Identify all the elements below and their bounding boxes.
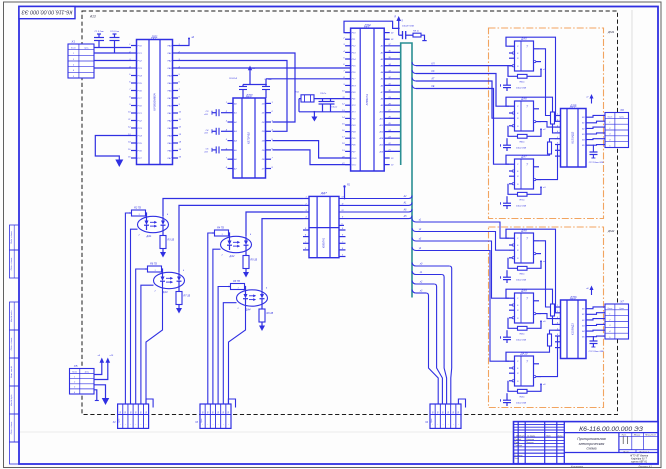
- connector X7: [605, 300, 629, 340]
- wire: [416, 74, 509, 107]
- svg-text:10мк×16В: 10мк×16В: [516, 205, 527, 208]
- trigger DA8: [501, 229, 547, 284]
- connector X1: [68, 40, 94, 79]
- svg-text:1: 1: [74, 377, 75, 379]
- wire: [416, 89, 509, 165]
- IC DD3: [225, 94, 274, 179]
- capacitor C6: [242, 85, 244, 87]
- wire: [416, 81, 509, 118]
- wire: [384, 32, 390, 34]
- svg-text:1: 1: [221, 234, 222, 236]
- connector X5: [70, 364, 95, 394]
- module DM1 boundary (orange dash-dot): [489, 28, 604, 219]
- wire: [384, 84, 401, 86]
- wire: [384, 71, 401, 73]
- wire: [586, 121, 605, 123]
- svg-text:С6 В1-В: С6 В1-В: [229, 78, 238, 80]
- svg-text:ХТ1: ХТ1: [351, 112, 357, 114]
- wire: [586, 138, 605, 141]
- svg-text:Конт: Конт: [608, 116, 613, 118]
- module DM2 boundary (orange dash-dot): [489, 227, 604, 408]
- wire: [95, 136, 131, 160]
- wire: [163, 199, 303, 217]
- capacitor C7: [265, 85, 267, 87]
- wire: [416, 251, 509, 362]
- node a0: [178, 39, 189, 46]
- wire: [262, 219, 303, 291]
- wire: [384, 117, 401, 119]
- bus tap: [412, 281, 416, 285]
- svg-text:Подп. и дата: Подп. и дата: [10, 337, 13, 350]
- svg-text:Масштаб: Масштаб: [645, 434, 656, 436]
- svg-text:Формат А3: Формат А3: [638, 465, 652, 468]
- svg-text:Лист: Лист: [519, 435, 525, 437]
- svg-text:4: 4: [73, 69, 74, 72]
- svg-text:2: 2: [73, 382, 75, 384]
- resistor R11: [551, 304, 555, 316]
- svg-text:КС: КС: [432, 71, 435, 73]
- node Ya1: [344, 187, 346, 199]
- wire: [208, 233, 213, 404]
- ground: [102, 398, 110, 405]
- wire (DD7 to bus): [339, 198, 409, 200]
- page fold line horizontal: [20, 431, 630, 433]
- svg-text:10мк×16В: 10мк×16В: [516, 339, 527, 342]
- svg-text:Подп. и дата: Подп. и дата: [10, 230, 13, 243]
- svg-text:Подп. и дата: Подп. и дата: [10, 421, 13, 434]
- svg-text:К6-116.00.00.000 ЭЗ: К6-116.00.00.000 ЭЗ: [579, 426, 644, 433]
- svg-text:R5 1В: R5 1В: [251, 259, 258, 262]
- svg-text:1: 1: [237, 288, 238, 290]
- wire: [586, 335, 605, 338]
- svg-text:2: 2: [608, 128, 610, 130]
- wire: [586, 329, 605, 332]
- svg-text:ДД3: ДД3: [245, 94, 252, 98]
- svg-text:А1: А1: [380, 51, 384, 54]
- svg-text:R3 1В: R3 1В: [168, 239, 175, 242]
- svg-text:ДМ1: ДМ1: [607, 30, 615, 34]
- page fold line vertical: [631, 10, 633, 460]
- pin stub: [339, 229, 346, 231]
- wire: [273, 150, 351, 165]
- pin stub: [339, 256, 346, 258]
- svg-text:Н.контр.: Н.контр.: [515, 455, 524, 457]
- svg-text:R4 ТВ: R4 ТВ: [217, 227, 224, 230]
- wire: [384, 58, 401, 60]
- wire: [94, 385, 106, 398]
- svg-text:RST: RST: [352, 85, 357, 87]
- svg-text:Цепь: Цепь: [620, 308, 624, 310]
- svg-text:Цепь: Цепь: [620, 116, 624, 118]
- bus tap: [412, 263, 416, 267]
- wire: [586, 307, 605, 309]
- wire: [541, 314, 555, 319]
- svg-text:Цепь: Цепь: [431, 418, 433, 422]
- wire: [416, 292, 426, 294]
- svg-text:1: 1: [609, 313, 610, 315]
- wire: [384, 91, 401, 93]
- node a8: [591, 290, 593, 296]
- svg-text:ZQ1: ZQ1: [294, 92, 300, 94]
- svg-text:С9-Ох: С9-Ох: [331, 107, 338, 109]
- wire: [94, 47, 131, 49]
- wire: [178, 61, 287, 132]
- wire: [384, 157, 390, 159]
- capacitor C11: [592, 145, 594, 153]
- svg-text:ДД9: ДД9: [569, 296, 576, 300]
- crystal ZQ1: [301, 95, 314, 102]
- wire: [586, 319, 605, 320]
- svg-text:К155ИД3: К155ИД3: [571, 131, 575, 143]
- pin stub: [339, 249, 346, 251]
- wire: [384, 131, 401, 133]
- svg-text:1: 1: [609, 122, 610, 124]
- svg-text:4: 4: [609, 330, 610, 333]
- wire: [541, 145, 558, 180]
- svg-text:3: 3: [609, 134, 610, 136]
- svg-text:С11 10мк×16В: С11 10мк×16В: [589, 161, 604, 164]
- capacitor С5: [221, 149, 228, 151]
- wire: [586, 115, 605, 117]
- wire: [94, 60, 131, 62]
- wire: [178, 53, 295, 122]
- svg-text:Х3: Х3: [194, 421, 199, 424]
- left margin box: [10, 442, 20, 464]
- node a7: [591, 98, 593, 104]
- wire: [384, 164, 390, 166]
- wire: [542, 97, 556, 133]
- svg-text:4: 4: [74, 391, 75, 394]
- wire (opto to DD7): [303, 204, 309, 206]
- svg-text:10мк×16В: 10мк×16В: [516, 147, 527, 150]
- svg-text:ДД5: ДД5: [569, 104, 576, 108]
- svg-text:10мк×16В: 10мк×16В: [516, 402, 527, 405]
- optocoupler DA3: [145, 263, 191, 314]
- wire (DD7 to bus): [339, 211, 409, 213]
- svg-text:1: 1: [73, 53, 74, 55]
- trigger DA9: [501, 289, 547, 344]
- bus tap: [412, 70, 416, 74]
- svg-text:Сидоров: Сидоров: [526, 438, 534, 441]
- wire: [384, 124, 401, 126]
- svg-text:ДД4: ДД4: [363, 24, 370, 28]
- svg-text:АТ89С51: АТ89С51: [365, 93, 369, 106]
- svg-text:группа АВТ-91: группа АВТ-91: [631, 461, 648, 464]
- wire: [94, 52, 131, 54]
- wire: [218, 287, 228, 405]
- bus (address): [401, 43, 412, 298]
- svg-text:Я: Я: [393, 17, 396, 19]
- svg-text:3: 3: [74, 387, 75, 389]
- capacitor С4: [221, 130, 228, 132]
- svg-text:2: 2: [608, 319, 610, 321]
- left margin box: [10, 225, 20, 250]
- wire: [384, 45, 401, 47]
- svg-text:х1В: х1В: [203, 114, 208, 116]
- capacitor C9: [330, 99, 332, 102]
- bus tap: [412, 271, 416, 275]
- wire: [586, 313, 605, 315]
- wire (DD7 to bus): [339, 204, 409, 206]
- svg-text:Масса: Масса: [634, 434, 641, 436]
- corner stamp box: [19, 7, 75, 19]
- wire: [146, 286, 163, 404]
- connector X6: [605, 108, 629, 148]
- wire: [421, 35, 425, 40]
- svg-text:10мк×16В: 10мк×16В: [516, 279, 527, 282]
- wire: [542, 37, 556, 121]
- wire: [178, 67, 351, 69]
- svg-text:В1: В1: [582, 314, 584, 316]
- svg-text:Копировал: Копировал: [571, 465, 584, 468]
- wire: [298, 99, 300, 112]
- wire: [542, 229, 556, 313]
- svg-text:КЕ: КЕ: [432, 86, 435, 88]
- svg-text:ДМ2: ДМ2: [607, 229, 615, 233]
- wire: [384, 137, 401, 139]
- svg-text:10мкФ×16В: 10мкФ×16В: [402, 25, 414, 28]
- ground: [115, 160, 123, 168]
- svg-text:ХТ2: ХТ2: [351, 105, 357, 107]
- resistor R12: [548, 334, 552, 346]
- svg-text:1: 1: [557, 114, 558, 116]
- svg-text:А13: А13: [89, 15, 96, 19]
- svg-text:Х2: Х2: [112, 421, 117, 424]
- svg-text:С2 0,1мк: С2 0,1мк: [110, 31, 120, 33]
- wire: [94, 390, 97, 401]
- IC DD5: [555, 104, 586, 167]
- wire: [541, 122, 555, 128]
- wire: [416, 265, 449, 267]
- svg-text:R8 1к: R8 1к: [413, 31, 420, 33]
- wire: [265, 79, 267, 85]
- left margin box: [10, 386, 20, 414]
- wire: [299, 111, 351, 113]
- optocoupler DA1: [129, 207, 175, 258]
- svg-text:3: 3: [609, 325, 610, 327]
- svg-text:Лист: Лист: [622, 451, 629, 453]
- svg-text:Цепь: Цепь: [84, 48, 88, 50]
- trigger DA6: [501, 97, 547, 152]
- capacitor С3: [221, 112, 228, 114]
- svg-text:Листов 1: Листов 1: [638, 451, 650, 453]
- wire: [94, 363, 102, 375]
- wire: [416, 65, 515, 67]
- svg-text:1: 1: [557, 305, 558, 307]
- wire: [384, 150, 401, 152]
- svg-text:5: 5: [73, 76, 74, 78]
- svg-text:Разраб.: Разраб.: [515, 439, 523, 441]
- wire: [416, 274, 442, 276]
- svg-text:R8 ТВ: R8 ТВ: [233, 280, 240, 283]
- left margin box: [10, 302, 20, 330]
- svg-text:ДА2: ДА2: [229, 254, 236, 258]
- wire (opto to DD7): [303, 198, 309, 200]
- wire: [539, 241, 555, 307]
- pin stub: [339, 236, 346, 238]
- svg-text:R9 1В: R9 1В: [267, 312, 274, 315]
- wire: [136, 269, 146, 404]
- wire: [223, 303, 236, 404]
- svg-text:С8-Ох: С8-Ох: [320, 93, 327, 95]
- svg-text:R6 ТВ: R6 ТВ: [150, 263, 157, 266]
- node a9 (+5V): [100, 358, 105, 363]
- trigger DA10: [501, 352, 547, 407]
- connector X2: [112, 399, 153, 428]
- svg-text:Конт: Конт: [71, 48, 76, 50]
- svg-text:Утв.: Утв.: [515, 458, 520, 460]
- svg-text:R2 ТВ: R2 ТВ: [134, 207, 141, 210]
- pin stub: [339, 242, 346, 244]
- capacitor С1: [98, 41, 100, 48]
- svg-text:Х4: Х4: [424, 421, 429, 424]
- junction: [344, 198, 346, 200]
- wire: [541, 336, 558, 377]
- resistor R8: [413, 33, 421, 37]
- svg-text:Инв.№ дубл.: Инв.№ дубл.: [10, 394, 13, 406]
- svg-text:5: 5: [609, 145, 610, 147]
- wire: [229, 304, 246, 405]
- svg-text:Конт: Конт: [608, 308, 613, 310]
- wire: [384, 51, 401, 53]
- capacitor C8: [322, 99, 324, 102]
- svg-text:Лит.: Лит.: [620, 434, 627, 436]
- svg-text:Х6: Х6: [619, 108, 624, 112]
- svg-text:Подп. и дата: Подп. и дата: [10, 257, 13, 270]
- svg-text:2: 2: [72, 59, 74, 61]
- left margin box: [10, 250, 20, 278]
- svg-text:Пров.: Пров.: [515, 442, 521, 444]
- svg-text:ДД1: ДД1: [150, 35, 157, 39]
- wire: [384, 111, 401, 113]
- wire: [266, 78, 351, 80]
- svg-text:Х7: Х7: [619, 300, 624, 304]
- wire: [179, 205, 303, 272]
- svg-text:Х5: Х5: [73, 364, 78, 368]
- svg-text:10мк×16В: 10мк×16В: [516, 87, 527, 90]
- wire: [273, 141, 351, 158]
- junction: [265, 84, 267, 86]
- wire: [416, 222, 509, 238]
- bus tap: [412, 62, 416, 66]
- svg-text:х1В: х1В: [203, 133, 208, 135]
- svg-text:К555ЛН1: К555ЛН1: [323, 237, 326, 248]
- svg-text:Цепь: Цепь: [85, 372, 89, 374]
- wire: [542, 139, 556, 156]
- svg-text:С12 10мк×16В: С12 10мк×16В: [589, 350, 604, 353]
- svg-text:R7 1В: R7 1В: [184, 295, 191, 298]
- wire: [384, 78, 401, 80]
- pin stub: [303, 229, 309, 231]
- bus tap: [412, 238, 416, 242]
- svg-text:Подп.: Подп.: [546, 434, 552, 437]
- wire: [406, 34, 413, 36]
- bus tap: [412, 228, 416, 232]
- svg-text:GND: GND: [352, 158, 357, 160]
- svg-text:В1: В1: [582, 123, 584, 125]
- wire: [542, 330, 556, 352]
- svg-text:К155ИД3: К155ИД3: [571, 323, 575, 335]
- wire: [384, 144, 401, 146]
- node +5V: [396, 16, 401, 21]
- trigger DA7: [501, 155, 547, 210]
- IC DD1: [128, 35, 182, 165]
- svg-text:Х1: Х1: [70, 40, 75, 44]
- wire: [299, 98, 351, 100]
- optocoupler DA4: [228, 280, 274, 331]
- svg-text:К573РФ2: К573РФ2: [247, 132, 251, 144]
- wire: [586, 133, 605, 134]
- left margin box: [10, 414, 20, 442]
- device boundary (dashed): [82, 11, 618, 415]
- svg-text:31: 31: [388, 84, 390, 86]
- svg-text:ДА1: ДА1: [146, 234, 153, 238]
- svg-text:5: 5: [609, 337, 610, 339]
- bus tap: [412, 85, 416, 89]
- svg-text:А11: А11: [379, 117, 384, 120]
- svg-text:11: 11: [341, 203, 343, 205]
- ground: [311, 117, 317, 122]
- node a5 (+5V): [248, 66, 252, 71]
- pin stub: [303, 249, 309, 251]
- svg-text:1: 1: [154, 270, 155, 272]
- node a10 (+5V): [106, 358, 111, 363]
- wire: [131, 229, 138, 404]
- svg-text:схема: схема: [587, 447, 597, 451]
- resistor R10: [548, 142, 552, 154]
- resistor R9: [551, 112, 555, 124]
- capacitor C12: [592, 336, 594, 341]
- wire: [539, 49, 555, 116]
- connector X3: [194, 399, 235, 428]
- svg-text:Конт: Конт: [72, 372, 77, 374]
- capacitor C10: [402, 31, 404, 39]
- trigger DA5: [501, 37, 547, 92]
- svg-text:Дата: Дата: [557, 435, 563, 437]
- svg-text:К6-116.00.00.000 ЭЗ: К6-116.00.00.000 ЭЗ: [21, 8, 72, 14]
- wire: [586, 144, 605, 147]
- bus tap: [412, 290, 416, 294]
- pin stub: [303, 236, 309, 238]
- wire: [313, 112, 315, 117]
- wire: [384, 65, 401, 67]
- svg-text:ДД7: ДД7: [320, 191, 327, 195]
- wire: [416, 283, 434, 285]
- IC DD7: [309, 191, 339, 258]
- wire: [213, 249, 221, 404]
- IC DD4: [341, 24, 384, 171]
- wire: [246, 212, 303, 237]
- left margin box: [10, 330, 20, 358]
- wire: [399, 34, 403, 36]
- optocoupler DA2: [212, 227, 258, 278]
- svg-text:Цепь: Цепь: [201, 418, 203, 422]
- wire: [384, 38, 390, 40]
- pin stub: [303, 242, 309, 244]
- wire: [94, 67, 131, 69]
- wire: [249, 70, 251, 85]
- svg-text:№ докум.: № докум.: [527, 434, 536, 437]
- svg-text:Я1: Я1: [346, 184, 351, 187]
- svg-text:21: 21: [387, 150, 390, 152]
- wire: [344, 21, 399, 32]
- wire: [542, 289, 556, 324]
- pin stub: [339, 224, 344, 226]
- wire: [416, 241, 509, 298]
- svg-text:х1В: х1В: [203, 151, 208, 153]
- wire (opto to DD7): [303, 211, 309, 213]
- wire: [586, 127, 605, 128]
